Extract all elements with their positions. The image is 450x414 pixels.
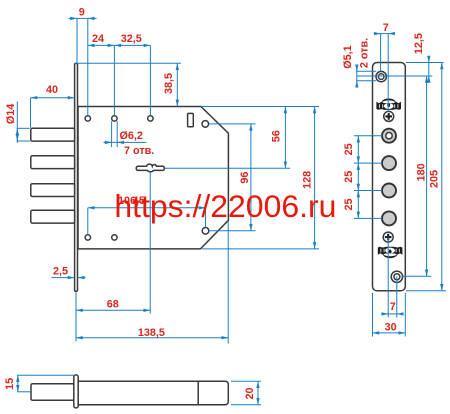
lock body outline: [78, 107, 228, 249]
dimension Ø6,2 line: [104, 141, 147, 143]
corner hole bottom right: [202, 228, 209, 235]
dimension 38,5 line: [176, 63, 178, 106]
corner hole top extension: [209, 123, 256, 125]
faceplate strip (edge-on): [75, 63, 78, 291]
dim Ø5,1 extensions: [356, 70, 376, 72]
dimension 40 extension: [30, 98, 32, 128]
strip top extension for 38,5: [75, 62, 181, 64]
top fixing hole: [376, 71, 386, 81]
svg-text:9: 9: [79, 7, 85, 19]
dimension 15 line: [17, 375, 19, 392]
dimension 24 line: [88, 44, 115, 46]
svg-text:56: 56: [271, 130, 283, 142]
bolt pin bar 2: [31, 156, 75, 169]
dimension 24 extension: [113, 45, 115, 115]
hub extensions left: [354, 135, 382, 137]
hub hole 1: [382, 129, 396, 143]
dim 205 line: [441, 63, 443, 291]
dimension Ø14 extensions: [17, 127, 30, 129]
screw hole top 3: [148, 116, 153, 121]
screw top: [384, 111, 394, 121]
keyhole extension down: [149, 171, 151, 314]
dim 25 line a: [357, 136, 359, 163]
dimension 32,5 line: [114, 44, 150, 46]
dimension 9 extension left: [76, 18, 78, 62]
svg-text:205: 205: [428, 170, 440, 188]
body bottom extension right: [202, 248, 319, 250]
dimension 32,5 extension: [149, 45, 151, 115]
dim 30 extensions: [372, 293, 374, 337]
logo bottom (inverted): [378, 247, 403, 258]
svg-text:30: 30: [385, 322, 397, 334]
bolt pin bar 1: [31, 128, 75, 141]
svg-text:25: 25: [343, 198, 355, 210]
dimension 128 line: [314, 107, 316, 249]
svg-text:25: 25: [343, 143, 355, 155]
svg-text:2 отв.: 2 отв.: [358, 38, 370, 68]
svg-text:40: 40: [46, 84, 58, 96]
svg-text:12,5: 12,5: [413, 33, 425, 54]
dimension 40 line: [31, 97, 75, 99]
screw hole bottom 1: [85, 235, 90, 240]
bolt pin: [31, 384, 74, 401]
dimension 106,5 line: [88, 207, 206, 209]
plate bottom extension right: [406, 290, 446, 292]
keyhole extension right: [165, 167, 291, 169]
dim 25 line b: [357, 163, 359, 190]
body top extension right: [201, 106, 319, 108]
top hole extension right: [357, 75, 433, 77]
svg-text:Ø14: Ø14: [5, 104, 17, 124]
screw hole top 2: [112, 116, 117, 121]
dim 12,5 line: [428, 63, 430, 77]
hub hole 2: [382, 156, 396, 170]
svg-text:7: 7: [383, 22, 389, 34]
dimension 138,5 line: [76, 337, 228, 339]
dimension 9 extension right: [87, 18, 89, 115]
svg-text:15: 15: [4, 378, 16, 390]
hub hole 3: [382, 184, 396, 198]
dimension 68 line: [76, 309, 150, 311]
dimension 20 extensions: [231, 380, 261, 382]
bolt flange: [74, 375, 78, 408]
logo top: [376, 99, 401, 110]
bottom hole extension right: [402, 275, 432, 277]
svg-text:32,5: 32,5: [121, 33, 142, 45]
dimension 96 line: [250, 124, 252, 231]
svg-text:20: 20: [244, 387, 256, 399]
body right extension down: [227, 221, 229, 344]
dimension 9 line: [77, 17, 88, 19]
dim 7 bottom line: [388, 313, 397, 315]
plate top extension right: [406, 62, 444, 64]
dimension 20 line: [257, 381, 259, 404]
faceplate outline: [373, 63, 406, 291]
svg-text:7: 7: [390, 301, 396, 313]
key cylinder slot: [136, 164, 164, 172]
screw hole bottom 2: [112, 235, 117, 240]
svg-text:25: 25: [343, 171, 355, 183]
centerline bottom hole: [396, 276, 398, 317]
dimension Ø6,2 extensions: [111, 121, 113, 147]
dimension Ø14 line: [16, 102, 18, 143]
svg-text:Ø6,2: Ø6,2: [120, 130, 143, 142]
dim 180 line: [426, 76, 428, 276]
centerline screw bottom: [387, 237, 389, 318]
svg-text:180: 180: [415, 163, 427, 181]
bottom fixing hole: [391, 271, 402, 282]
bolt bar: [78, 381, 228, 404]
screw hole top 1: [85, 116, 90, 121]
svg-text:38,5: 38,5: [163, 73, 175, 94]
svg-text:https://22006.ru: https://22006.ru: [114, 189, 336, 224]
svg-text:138,5: 138,5: [138, 327, 165, 339]
dim 7 top extensions: [380, 34, 382, 72]
hub hole 4: [382, 211, 396, 225]
svg-text:2,5: 2,5: [53, 265, 68, 277]
svg-text:128: 128: [301, 171, 313, 189]
dimension 56 line: [284, 107, 286, 169]
svg-text:68: 68: [107, 299, 119, 311]
bolt pin bar 3: [31, 184, 75, 197]
bolt bar divider: [197, 381, 199, 404]
dim 25 line c: [357, 191, 359, 219]
rectangular slot: [188, 113, 194, 126]
screw bottom: [383, 232, 393, 242]
bolt pin bar 4: [31, 210, 75, 223]
svg-text:96: 96: [239, 172, 251, 184]
dim 30 line: [373, 332, 406, 334]
svg-text:Ø5,1: Ø5,1: [342, 45, 354, 68]
dimension 2,5: [52, 277, 75, 279]
dimension 106,5 extensions: [87, 208, 89, 235]
dimension 15 extensions: [17, 374, 75, 376]
svg-text:7 отв.: 7 отв.: [124, 145, 154, 157]
corner hole top right: [202, 121, 209, 128]
dim 7 top line: [381, 33, 389, 35]
strip bottom extension down: [75, 292, 77, 342]
corner hole bottom extension: [209, 230, 256, 232]
dim Ø5,1 line: [356, 71, 358, 80]
svg-text:24: 24: [92, 33, 104, 45]
